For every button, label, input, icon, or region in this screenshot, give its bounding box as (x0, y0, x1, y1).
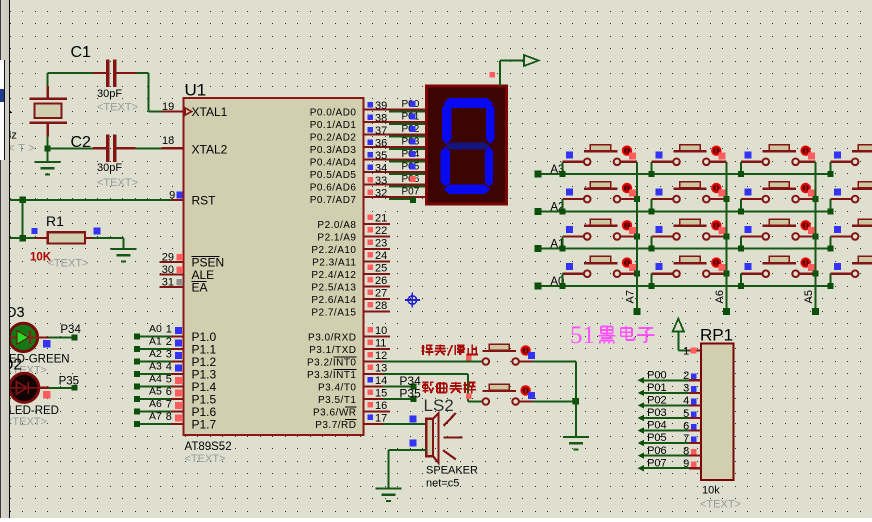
pin 9 RP1 (689, 467, 701, 469)
button left lead (830, 235, 851, 237)
svg-text:3: 3 (683, 383, 689, 395)
pin 37 P0.2 (364, 134, 427, 136)
button left lead (652, 235, 673, 237)
state square D2 (43, 391, 51, 399)
wire net P05 to display (389, 173, 427, 175)
svg-text:29: 29 (162, 251, 174, 263)
svg-text:2: 2 (683, 370, 689, 382)
svg-text:XTAL1: XTAL1 (192, 105, 228, 119)
button right lead (621, 198, 637, 200)
pin 21 P2.0 (364, 223, 391, 225)
svg-text:4: 4 (683, 395, 689, 407)
button state squares (719, 190, 726, 197)
pin 17 P3.7 (364, 423, 391, 425)
wire song-select to ground rail (519, 400, 532, 402)
svg-text:P34: P34 (60, 324, 81, 336)
row terminal A1 (535, 245, 542, 252)
pin 19 XTAL1 (162, 110, 184, 112)
svg-text:P05: P05 (647, 432, 667, 444)
pin state squares of R1 (32, 228, 38, 234)
junction button-row (738, 208, 744, 214)
svg-text:14: 14 (375, 375, 387, 387)
column terminal A7 (634, 308, 641, 315)
display segment D (444, 185, 490, 195)
junction button-row (559, 283, 565, 289)
button actuator bar (763, 187, 796, 189)
button right lead (621, 273, 637, 275)
svg-text:39: 39 (375, 100, 387, 112)
pin 36 P0.3 (364, 146, 427, 148)
svg-text:EA: EA (192, 281, 208, 295)
junction button-row (649, 283, 655, 289)
junction buttons ground rail (573, 398, 580, 405)
svg-text:<TEXT>: <TEXT> (97, 177, 138, 189)
button left lead (830, 161, 851, 163)
svg-text:P3.7/RD: P3.7/RD (315, 420, 356, 431)
button contacts (483, 358, 490, 365)
svg-text:<TEXT>: <TEXT> (48, 258, 89, 270)
wire pin 17 to speaker (383, 423, 427, 425)
button contacts (584, 270, 591, 277)
svg-text:P0.5/AD5: P0.5/AD5 (310, 170, 357, 181)
svg-text:P06: P06 (647, 445, 667, 457)
svg-text:P2.6/A14: P2.6/A14 (311, 295, 356, 306)
pin 7 RP1 (689, 442, 701, 444)
pin 29 PSEN (160, 261, 184, 263)
svg-text:23: 23 (375, 238, 387, 250)
svg-text:8: 8 (683, 445, 689, 457)
wire crystal to ground and C2 (47, 137, 49, 161)
svg-text:24: 24 (375, 250, 387, 262)
svg-text:8: 8 (166, 411, 172, 423)
junction button-row (738, 283, 744, 289)
svg-text:P0.4/AD4: P0.4/AD4 (310, 157, 357, 168)
pin 27 P2.6 (364, 298, 391, 300)
junction button-column (813, 271, 819, 277)
wire display common to output terminal (499, 61, 501, 87)
junction button-column (634, 233, 640, 239)
crystal X1 (47, 86, 49, 98)
svg-text:1: 1 (683, 345, 689, 357)
svg-text:15: 15 (375, 388, 387, 400)
pin 1 RP1 (678, 349, 689, 351)
button state squares (629, 190, 636, 197)
button contacts (852, 196, 859, 203)
button right lead (710, 235, 726, 237)
keypad row wire A3 (538, 173, 831, 175)
svg-text:6: 6 (683, 420, 689, 432)
button actuator bar (584, 225, 617, 227)
button red operate icon (711, 183, 721, 193)
svg-text:P0.3/AD3: P0.3/AD3 (310, 145, 357, 156)
svg-text:28: 28 (375, 300, 387, 312)
svg-text:RP1: RP1 (700, 326, 733, 345)
svg-text:<TEXT>: <TEXT> (185, 453, 226, 465)
svg-text:7: 7 (683, 433, 689, 445)
svg-text:P2.4/A12: P2.4/A12 (311, 270, 356, 281)
svg-text:P00: P00 (647, 370, 667, 382)
svg-text:P3.3/INT1: P3.3/INT1 (307, 370, 357, 381)
button red operate icon (800, 146, 810, 156)
button contacts (852, 233, 859, 240)
svg-text:<T>: <T> (8, 142, 38, 154)
button state squares (528, 352, 535, 359)
wire D2 to net P35 (39, 387, 49, 389)
svg-text:LS2: LS2 (424, 396, 454, 415)
wire net P35 from pin 15 (383, 398, 411, 400)
svg-text:P01: P01 (647, 382, 667, 394)
button contacts (852, 159, 859, 166)
wire net P03 to display (389, 148, 427, 150)
svg-text:C1: C1 (71, 44, 92, 61)
svg-text:13: 13 (375, 363, 387, 375)
speaker sound rays (443, 413, 462, 460)
pin 26 P2.5 (364, 286, 391, 288)
button left lead (652, 198, 673, 200)
button state squares (528, 392, 535, 399)
wire net A6 to pin 7 (134, 409, 140, 415)
button left lead (830, 273, 851, 275)
pin 30 ALE (160, 273, 184, 275)
pin 1 P1.0 (171, 335, 184, 337)
pin 33 P0.6 (364, 184, 427, 186)
wire net P06 to RP1 pin 8 (638, 453, 644, 459)
pin 2 RP1 (689, 379, 701, 381)
svg-text:P2.3/A11: P2.3/A11 (312, 257, 356, 268)
svg-text:P35: P35 (399, 387, 421, 401)
wire play/stop to ground rail (519, 360, 532, 362)
svg-text:A7: A7 (149, 411, 162, 423)
svg-text:26: 26 (375, 275, 387, 287)
button left lead (741, 198, 762, 200)
pin 22 P2.1 (364, 236, 391, 238)
svg-text:P0.6/AD6: P0.6/AD6 (310, 182, 357, 193)
microcontroller U1 AT89S52 (184, 98, 364, 435)
pin 31 EA (160, 286, 184, 288)
button state squares (719, 264, 726, 271)
junction button-column (813, 233, 819, 239)
svg-text:A0: A0 (149, 323, 162, 335)
svg-text:P3.4/T0: P3.4/T0 (318, 382, 357, 393)
svg-text:<TEXT>: <TEXT> (6, 416, 47, 428)
wire crystal to C2 (48, 147, 93, 149)
sheet origin marker (405, 293, 420, 308)
junction button-column (723, 196, 729, 202)
label 歌曲选择 (423, 382, 434, 393)
wire net P05 to RP1 pin 7 (638, 440, 644, 446)
ground below speaker (376, 487, 402, 489)
button state squares (719, 152, 726, 159)
pin 5 P1.4 (171, 385, 184, 387)
svg-text:P07: P07 (402, 186, 420, 197)
junction button-row (827, 246, 833, 252)
button right lead (799, 273, 815, 275)
junction P07 (410, 197, 416, 203)
pin 34 P0.5 (364, 171, 427, 173)
button state squares (719, 227, 726, 234)
display segment C (485, 147, 493, 188)
svg-text:P3.2/INT0: P3.2/INT0 (307, 357, 357, 368)
svg-text:A5: A5 (149, 386, 162, 398)
svg-text:17: 17 (375, 413, 387, 425)
label 弹奏/停止 (422, 345, 434, 356)
wire net A7 to pin 8 (134, 421, 140, 427)
svg-text:10: 10 (375, 325, 387, 337)
wire D3 to net P34 (38, 336, 49, 338)
svg-text:P0.7/AD7: P0.7/AD7 (310, 195, 357, 206)
speaker LS2 (426, 419, 433, 457)
button actuator bar (852, 262, 872, 264)
button state squares (629, 264, 636, 271)
pin 8 P1.7 (171, 423, 184, 425)
button left lead (562, 161, 583, 163)
button red operate icon (711, 146, 721, 156)
svg-text:XTAL2: XTAL2 (192, 143, 228, 157)
pin 7 P1.6 (171, 410, 184, 412)
button right lead (710, 161, 726, 163)
wire net P07 stub (389, 198, 410, 200)
wire RST net (10, 199, 171, 201)
wire net P01 to RP1 pin 3 (638, 390, 644, 396)
button contacts (763, 233, 770, 240)
wire net A1 to pin 2 (134, 346, 140, 352)
net state square play/stop (466, 355, 471, 360)
display segment B (486, 103, 494, 144)
button left lead (562, 198, 583, 200)
button actuator bar (852, 225, 872, 227)
button red operate icon (622, 146, 632, 156)
svg-text:18: 18 (162, 135, 174, 147)
svg-text:5: 5 (166, 373, 172, 385)
svg-text:5: 5 (683, 408, 689, 420)
junction button-row (827, 208, 833, 214)
pin 16 P3.6 (364, 411, 391, 413)
button contacts (852, 270, 859, 277)
svg-text:R1: R1 (46, 213, 64, 229)
keypad column wire A7 (636, 162, 638, 312)
svg-text:16: 16 (375, 400, 387, 412)
button state squares (808, 152, 815, 159)
junction crystal-C2 (45, 145, 51, 151)
svg-text:1: 1 (166, 323, 172, 335)
display segment E (441, 147, 451, 188)
button contacts (673, 233, 680, 240)
svg-text:P02: P02 (647, 395, 667, 407)
button red operate icon (800, 183, 810, 193)
svg-text:37: 37 (375, 125, 387, 137)
svg-text:A6: A6 (714, 290, 726, 303)
button left lead (652, 161, 673, 163)
button right lead (799, 198, 815, 200)
wire C1 left to crystal (48, 72, 94, 74)
wire net P34 from pin 14 (383, 386, 411, 388)
svg-text:P2.5/A13: P2.5/A13 (311, 282, 356, 293)
svg-text:33: 33 (375, 175, 387, 187)
svg-text:27: 27 (375, 288, 387, 300)
button state squares (808, 190, 815, 197)
svg-text:9: 9 (169, 189, 175, 201)
svg-text:31: 31 (162, 276, 174, 288)
pin 10 P3.0 (364, 336, 391, 338)
capacitor C1 (106, 60, 110, 87)
pin 39 P0.0 (364, 109, 427, 111)
svg-text:25: 25 (375, 263, 387, 275)
pin 14 P3.4 (364, 386, 391, 388)
svg-text:21: 21 (375, 213, 387, 225)
button contacts (584, 159, 591, 166)
pin 28 P2.7 (364, 311, 391, 313)
svg-text:36: 36 (375, 138, 387, 150)
svg-text:12: 12 (375, 350, 387, 362)
wire net A3 to pin 4 (134, 371, 140, 377)
junction R1 left (19, 235, 26, 242)
svg-text:A5: A5 (803, 290, 815, 303)
keypad row wire A0 (538, 285, 831, 287)
button actuator bar (763, 262, 796, 264)
junction button-row (649, 208, 655, 214)
button contacts (584, 196, 591, 203)
svg-text:P3.6/WR: P3.6/WR (313, 407, 357, 418)
button left lead (741, 161, 762, 163)
column terminal A6 (723, 308, 730, 315)
svg-text:P35: P35 (59, 376, 79, 388)
wire buttons to ground (575, 362, 577, 437)
wire net P04 to display (389, 161, 427, 163)
XTAL1 clock input arrow (185, 108, 191, 115)
svg-text:P2.2/A10: P2.2/A10 (311, 245, 356, 256)
button contacts (763, 196, 770, 203)
display segment G off (445, 143, 489, 150)
wire C2 to XTAL2 pin 18 (135, 147, 161, 149)
svg-text:P2.0/A8: P2.0/A8 (317, 220, 356, 231)
wire to R1 (10, 237, 35, 239)
button contacts (673, 159, 680, 166)
button state squares (629, 152, 636, 159)
svg-text:32: 32 (375, 188, 387, 200)
button red operate icon (520, 345, 530, 355)
svg-text:AT89S52: AT89S52 (185, 441, 232, 453)
pin 15 P3.5 (364, 398, 391, 400)
wire net A5 to pin 6 (134, 396, 140, 402)
button left lead (562, 235, 583, 237)
svg-text:P04: P04 (647, 420, 667, 432)
svg-text:11: 11 (375, 338, 386, 350)
pin 25 P2.4 (364, 273, 391, 275)
button red operate icon (711, 220, 721, 230)
button left lead (741, 235, 762, 237)
net state square song-select (466, 393, 471, 398)
wire net P04 to RP1 pin 6 (638, 427, 644, 433)
pin 12 P3.2 (364, 361, 391, 363)
wire net A4 to pin 5 (134, 384, 140, 390)
wire net P06 to display (389, 186, 427, 188)
junction button-column (634, 271, 640, 277)
display segment F (442, 103, 452, 144)
button actuator bar (584, 187, 617, 189)
junction button-row (738, 171, 744, 177)
button right lead (799, 235, 815, 237)
button red operate icon (800, 220, 810, 230)
svg-text:A6: A6 (149, 398, 162, 410)
7-segment display (427, 86, 507, 204)
button contacts (483, 398, 490, 405)
svg-text:10k: 10k (702, 485, 720, 497)
keypad row wire A1 (538, 248, 831, 250)
button actuator bar (763, 225, 796, 227)
junction button-row (559, 246, 565, 252)
svg-text:7: 7 (166, 398, 172, 410)
button contacts (673, 270, 680, 277)
ground below crystal (35, 161, 61, 163)
button state squares (629, 227, 636, 234)
wire speaker to ground (389, 449, 427, 451)
svg-text:P07: P07 (647, 457, 667, 469)
pin 5 RP1 (689, 417, 701, 419)
display segment A (444, 98, 493, 108)
junction RST-R1 (19, 197, 26, 204)
pin 23 P2.2 (364, 248, 391, 250)
column terminal A5 (812, 308, 819, 315)
svg-text:A1: A1 (149, 336, 162, 348)
junction button-row (738, 246, 744, 252)
pin 4 P1.3 (171, 373, 184, 375)
resistor R1 (35, 237, 48, 239)
wire net P02 to RP1 pin 4 (638, 402, 644, 408)
svg-text:A3: A3 (149, 361, 162, 373)
junction button-row (649, 171, 655, 177)
junction button-column (634, 196, 640, 202)
junction button-row (827, 283, 833, 289)
svg-text:35: 35 (375, 150, 387, 162)
button contacts (584, 233, 591, 240)
row terminal A2 (535, 208, 542, 215)
svg-text:P03: P03 (647, 407, 667, 419)
button red operate icon (622, 257, 632, 267)
button right lead (710, 198, 726, 200)
button actuator bar (673, 187, 706, 189)
button actuator bar (673, 262, 706, 264)
button red operate icon (622, 220, 632, 230)
pin 3 P1.2 (171, 360, 184, 362)
state square D3 (43, 340, 50, 347)
svg-text:30pF: 30pF (97, 162, 122, 174)
wire pin 12 to play/stop button (383, 361, 482, 363)
power terminal VCC (673, 319, 684, 332)
svg-text:2: 2 (166, 336, 172, 348)
button right lead (621, 161, 637, 163)
svg-text:P0.2/AD2: P0.2/AD2 (310, 132, 357, 143)
wire net A0 to pin 1 (134, 334, 140, 340)
wire net P03 to RP1 pin 5 (638, 415, 644, 421)
svg-text:P0.0/AD0: P0.0/AD0 (310, 107, 357, 118)
button actuator bar (673, 150, 706, 152)
button actuator bar (763, 150, 796, 152)
junction button-column (723, 233, 729, 239)
pin 11 P3.1 (364, 348, 391, 350)
wire net P00 to RP1 pin 2 (638, 377, 644, 383)
svg-text:LED-RED: LED-RED (9, 405, 59, 417)
button actuator bar (673, 225, 706, 227)
svg-text:6: 6 (166, 386, 172, 398)
ground below buttons (563, 436, 589, 438)
junction button-column (723, 271, 729, 277)
junction button-row (827, 171, 833, 177)
svg-text:P1.7: P1.7 (192, 418, 217, 432)
wire net A2 to pin 3 (134, 359, 140, 365)
junction button-row (649, 246, 655, 252)
svg-text:19: 19 (162, 101, 174, 113)
svg-text:38: 38 (375, 113, 387, 125)
